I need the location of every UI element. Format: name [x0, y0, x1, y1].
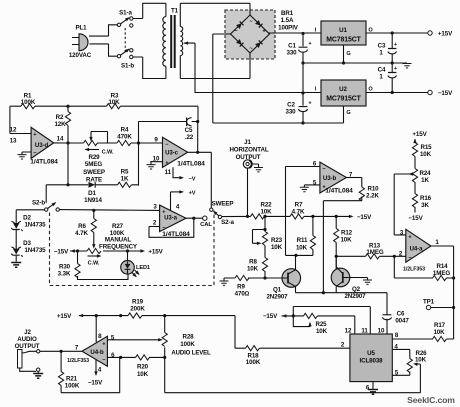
svg-text:3.3K: 3.3K	[58, 271, 71, 278]
svg-text:470Ω: 470Ω	[235, 291, 250, 298]
svg-text:1/2LF353: 1/2LF353	[67, 358, 89, 364]
svg-text:1N4735: 1N4735	[24, 222, 46, 229]
svg-text:6: 6	[111, 352, 115, 359]
svg-text:10K: 10K	[137, 371, 149, 378]
svg-text:BR1: BR1	[281, 10, 294, 17]
svg-text:ICL8038: ICL8038	[359, 358, 383, 365]
svg-text:5: 5	[313, 180, 317, 187]
svg-text:1/4TL084: 1/4TL084	[162, 231, 190, 238]
svg-text:U3-c: U3-c	[165, 150, 179, 157]
svg-text:1/4TL084: 1/4TL084	[30, 159, 58, 166]
svg-text:10K: 10K	[271, 244, 283, 251]
svg-text:TP1: TP1	[423, 299, 435, 306]
svg-text:C.W.: C.W.	[88, 261, 100, 267]
svg-text:1.5A: 1.5A	[281, 17, 294, 24]
svg-text:2.2K: 2.2K	[366, 193, 379, 200]
svg-text:R16: R16	[420, 195, 432, 202]
svg-text:13: 13	[10, 138, 17, 145]
svg-text:10K: 10K	[108, 99, 120, 106]
svg-text:D3: D3	[23, 240, 31, 247]
svg-text:10K: 10K	[415, 357, 427, 364]
svg-text:R4: R4	[121, 127, 129, 134]
svg-text:+15V: +15V	[412, 131, 427, 138]
svg-text:0047: 0047	[395, 318, 409, 325]
svg-text:+: +	[308, 41, 312, 47]
svg-text:SeekIC.com: SeekIC.com	[407, 395, 455, 405]
svg-text:Q2: Q2	[352, 286, 361, 293]
svg-text:U1: U1	[339, 27, 347, 34]
svg-text:FREQUENCY: FREQUENCY	[99, 244, 138, 251]
svg-text:G: G	[346, 110, 350, 116]
svg-text:S1-a: S1-a	[119, 10, 132, 17]
svg-text:AUDIO LEVEL: AUDIO LEVEL	[171, 351, 211, 357]
svg-text:U3-d: U3-d	[35, 142, 49, 149]
svg-text:T1: T1	[171, 8, 179, 15]
svg-text:R21: R21	[66, 376, 78, 383]
svg-text:R15: R15	[420, 144, 432, 151]
svg-text:R5: R5	[121, 169, 129, 176]
svg-text:+: +	[394, 66, 398, 72]
svg-text:1: 1	[379, 74, 383, 81]
svg-text:5MEG: 5MEG	[85, 161, 102, 168]
svg-text:9: 9	[154, 137, 158, 144]
svg-text:R27: R27	[112, 223, 124, 230]
svg-text:J1: J1	[244, 139, 251, 146]
svg-text:CAL: CAL	[200, 222, 212, 228]
svg-text:O: O	[368, 87, 373, 93]
svg-text:1K: 1K	[121, 176, 129, 183]
svg-text:LED1: LED1	[136, 265, 150, 271]
svg-text:+15V: +15V	[438, 31, 453, 38]
svg-text:10K: 10K	[260, 208, 272, 215]
svg-text:10K: 10K	[316, 328, 328, 335]
svg-text:U4-b: U4-b	[90, 349, 104, 356]
svg-text:10K: 10K	[420, 151, 432, 158]
svg-text:MC7815CT: MC7815CT	[326, 37, 361, 44]
svg-text:1MEG: 1MEG	[433, 270, 450, 277]
svg-text:1K: 1K	[421, 177, 429, 184]
svg-text:R8: R8	[249, 259, 257, 266]
svg-text:14: 14	[57, 136, 64, 143]
svg-text:U4-a: U4-a	[410, 246, 424, 253]
svg-text:4.7K: 4.7K	[292, 208, 305, 215]
svg-text:+15V: +15V	[57, 313, 72, 320]
svg-text:R23: R23	[271, 237, 283, 244]
svg-text:G: G	[346, 51, 350, 57]
svg-text:−15V: −15V	[54, 248, 69, 255]
svg-text:3: 3	[400, 230, 404, 237]
svg-text:3K: 3K	[421, 202, 429, 209]
svg-text:U3-a: U3-a	[164, 215, 178, 222]
svg-text:330: 330	[285, 109, 296, 116]
svg-text:MC7915CT: MC7915CT	[326, 96, 361, 103]
svg-text:100K: 100K	[180, 341, 195, 348]
svg-text:10K: 10K	[433, 329, 445, 336]
svg-text:−15V: −15V	[408, 215, 423, 222]
svg-text:C3: C3	[378, 43, 386, 50]
svg-text:+V: +V	[189, 191, 196, 197]
svg-text:.22: .22	[185, 134, 194, 141]
svg-text:−15V: −15V	[88, 380, 103, 387]
svg-text:+15V: +15V	[148, 248, 163, 255]
svg-text:R10: R10	[367, 186, 379, 193]
svg-text:4.7K: 4.7K	[75, 230, 88, 237]
svg-text:S2-b: S2-b	[32, 200, 45, 207]
svg-text:S1-b: S1-b	[121, 63, 134, 70]
svg-text:3: 3	[153, 204, 157, 211]
svg-text:2: 2	[153, 220, 157, 227]
svg-text:AUDIO: AUDIO	[17, 336, 37, 343]
svg-text:7: 7	[75, 345, 79, 352]
svg-text:R25: R25	[315, 321, 327, 328]
svg-text:12: 12	[345, 328, 352, 335]
svg-text:−V: −V	[189, 177, 196, 183]
svg-text:10K: 10K	[296, 245, 308, 252]
svg-text:12K: 12K	[54, 121, 66, 128]
svg-text:100K: 100K	[246, 359, 261, 366]
svg-text:R28: R28	[182, 334, 194, 341]
svg-text:R20: R20	[137, 364, 149, 371]
svg-text:HORIZONTAL: HORIZONTAL	[229, 147, 268, 154]
svg-text:1/2LF353: 1/2LF353	[403, 267, 425, 273]
svg-text:2: 2	[341, 342, 345, 349]
svg-text:R19: R19	[132, 299, 144, 306]
svg-text:Q1: Q1	[273, 287, 282, 294]
svg-text:6: 6	[366, 385, 370, 392]
svg-text:10: 10	[378, 328, 385, 335]
svg-text:R17: R17	[434, 322, 446, 329]
svg-text:−15V: −15V	[438, 90, 453, 97]
svg-text:1/4TL084: 1/4TL084	[325, 188, 353, 195]
svg-text:C4: C4	[378, 67, 386, 74]
svg-text:U3-b: U3-b	[323, 175, 337, 182]
svg-text:SWEEP: SWEEP	[212, 201, 234, 208]
svg-text:J2: J2	[24, 329, 31, 336]
svg-text:120VAC: 120VAC	[69, 52, 92, 59]
svg-text:SWEEP: SWEEP	[83, 169, 105, 176]
svg-text:+: +	[308, 101, 312, 107]
svg-text:8: 8	[395, 332, 399, 339]
svg-text:10K: 10K	[247, 266, 259, 273]
svg-text:R6: R6	[78, 223, 86, 230]
svg-text:U2: U2	[339, 86, 347, 93]
svg-text:+: +	[394, 42, 398, 48]
svg-text:100K: 100K	[65, 383, 80, 390]
svg-text:R30: R30	[59, 264, 71, 271]
svg-text:100PIV: 100PIV	[278, 25, 299, 32]
svg-text:D1: D1	[88, 190, 96, 197]
svg-text:10K: 10K	[340, 237, 352, 244]
svg-text:R29: R29	[88, 154, 100, 161]
svg-text:12: 12	[10, 127, 17, 134]
svg-text:200K: 200K	[130, 306, 145, 313]
svg-text:1MEG: 1MEG	[366, 249, 383, 256]
svg-text:330: 330	[286, 50, 297, 57]
svg-text:C1: C1	[288, 43, 296, 50]
svg-text:1N914: 1N914	[84, 197, 102, 204]
svg-text:I: I	[315, 87, 317, 93]
svg-text:1: 1	[379, 50, 383, 57]
svg-text:C5: C5	[185, 127, 193, 134]
svg-text:R11: R11	[297, 237, 308, 244]
svg-text:8: 8	[98, 333, 102, 340]
svg-text:11: 11	[165, 169, 172, 176]
svg-text:1N4735: 1N4735	[24, 247, 46, 254]
svg-text:4: 4	[176, 204, 180, 211]
svg-text:S2-a: S2-a	[221, 219, 234, 226]
svg-text:R9: R9	[237, 284, 245, 291]
svg-text:5: 5	[111, 335, 115, 342]
svg-text:−15V: −15V	[357, 214, 372, 221]
svg-text:U5: U5	[367, 350, 375, 357]
svg-text:1: 1	[435, 239, 439, 246]
svg-text:C.W.: C.W.	[102, 150, 114, 156]
svg-text:2N2907: 2N2907	[344, 293, 366, 300]
svg-text:C6: C6	[397, 311, 405, 318]
svg-text:RATE: RATE	[86, 177, 102, 184]
svg-text:OUTPUT: OUTPUT	[15, 343, 40, 350]
svg-text:C2: C2	[287, 102, 295, 109]
svg-text:1/4TL084: 1/4TL084	[177, 160, 205, 167]
svg-text:D2: D2	[23, 215, 31, 222]
svg-text:PL1: PL1	[75, 25, 87, 32]
svg-text:R12: R12	[341, 230, 353, 237]
svg-text:100K: 100K	[21, 99, 36, 106]
svg-text:470K: 470K	[117, 134, 132, 141]
svg-text:4: 4	[98, 367, 102, 374]
svg-text:11: 11	[361, 328, 368, 335]
svg-text:−15V: −15V	[263, 313, 278, 320]
svg-text:2N2907: 2N2907	[266, 294, 288, 301]
svg-text:R24: R24	[419, 170, 431, 177]
